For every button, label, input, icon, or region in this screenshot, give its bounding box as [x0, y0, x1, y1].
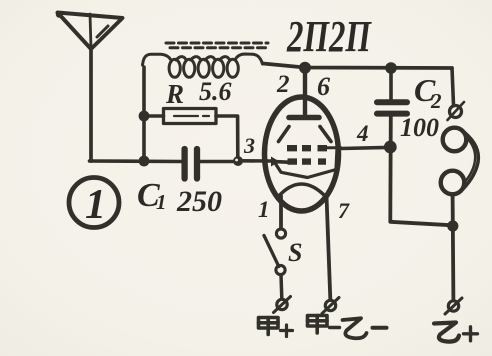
inductor L coil	[143, 54, 263, 77]
wire resistor left lead	[144, 114, 164, 118]
wire screen to pin4	[327, 146, 341, 149]
tube anode lead	[303, 68, 307, 114]
wire C1 to junction circle	[200, 160, 234, 164]
inductor core (dashed)	[166, 42, 268, 45]
tube screen grid dashes	[287, 145, 327, 151]
capacitor C2 top lead	[389, 68, 393, 99]
terminal B+ (slashed circle)	[448, 301, 458, 311]
capacitor C1 plates	[181, 149, 187, 179]
wire top right corner down to jack	[452, 68, 454, 105]
svg-text:100: 100	[400, 113, 439, 142]
svg-text:1: 1	[85, 182, 106, 228]
wire filament right leg (pin 7)	[327, 196, 331, 299]
antenna	[56, 11, 123, 49]
tube V 2П2П envelope	[265, 97, 339, 211]
svg-text:R: R	[165, 79, 184, 109]
figure number circle	[69, 178, 119, 228]
headphones band	[463, 133, 479, 190]
junction dot right rail	[447, 220, 458, 231]
switch S contact top	[276, 229, 285, 238]
junction dot top C2	[385, 62, 397, 74]
resistor R body	[164, 109, 217, 124]
tube anode bar	[289, 115, 319, 121]
tube filament arc	[278, 184, 327, 198]
wire junction circle to tube grid	[242, 161, 288, 162]
junction dot top-left (anode tap)	[299, 62, 311, 74]
label 甲-乙- (A- B-)	[308, 316, 387, 339]
capacitor C2 bottom lead down and right	[390, 117, 452, 226]
wire main horizontal left	[90, 159, 182, 163]
svg-text:6: 6	[317, 72, 330, 101]
svg-text:3: 3	[243, 133, 255, 158]
tube beam plate left	[279, 127, 290, 142]
junction dot main-left	[139, 156, 150, 167]
svg-text:4: 4	[356, 121, 369, 146]
svg-text:2: 2	[430, 89, 442, 113]
svg-text:250: 250	[176, 185, 222, 218]
svg-text:2: 2	[276, 71, 290, 98]
svg-text:1: 1	[258, 197, 270, 222]
junction dot pin4	[384, 141, 397, 154]
svg-text:7: 7	[338, 198, 350, 223]
junction circle node 3	[233, 156, 243, 166]
label 甲+ (A+)	[259, 318, 293, 337]
tube beam plate right	[320, 127, 331, 142]
svg-text:5.6: 5.6	[199, 77, 232, 106]
terminal A-B- (slashed circle)	[325, 300, 335, 310]
wire top rail	[263, 64, 452, 69]
label 乙+ (B+)	[434, 323, 478, 342]
terminal A+ (slashed circle)	[277, 299, 287, 309]
jack symbol (circle with slash)	[450, 106, 462, 118]
wire left branch vertical	[142, 67, 146, 161]
tube suppressor cup	[276, 149, 337, 178]
headphones earpiece top	[443, 128, 467, 152]
switch S contact bottom	[276, 265, 285, 274]
switch S blade	[264, 236, 279, 267]
svg-text:2П2П: 2П2П	[286, 12, 372, 61]
wire right vertical (headphones to B+)	[451, 196, 456, 299]
wire pin4 to C2 branch	[341, 148, 386, 149]
capacitor C2 plates	[377, 99, 407, 105]
junction dot resistor-left	[139, 111, 150, 122]
wire resistor right lead down	[216, 116, 238, 157]
svg-text:1: 1	[156, 190, 167, 214]
wire switch to terminal	[279, 275, 283, 299]
wire filament left leg (pin 1)	[279, 196, 283, 229]
wire antenna feeder	[89, 49, 93, 161]
tube control grid dashes	[288, 158, 327, 164]
headphones earpiece bottom	[441, 171, 465, 195]
tube grid arrow (pin 3)	[271, 157, 280, 167]
svg-text:S: S	[288, 238, 302, 267]
